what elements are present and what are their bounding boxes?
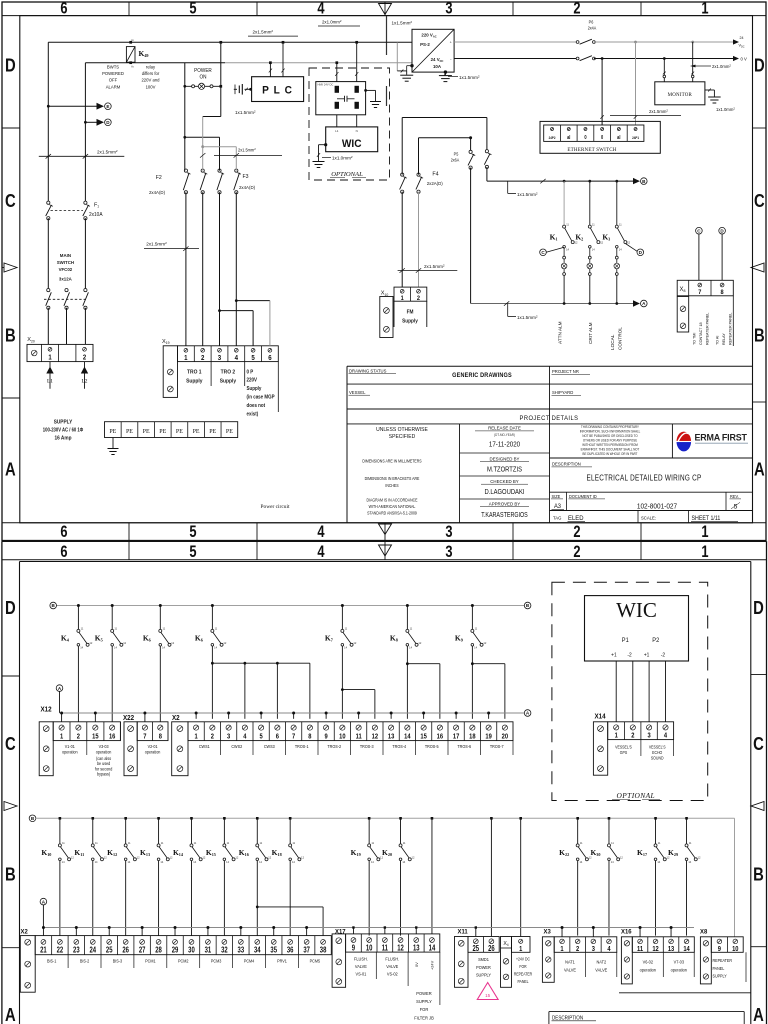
svg-text:F4: F4 bbox=[432, 172, 438, 178]
label 1x1.5mm2 at PS-2 ground bbox=[448, 75, 458, 77]
svg-text:CHECKED BY: CHECKED BY bbox=[490, 479, 519, 484]
relay contact K19 row2 bbox=[368, 817, 371, 820]
svg-text:WITH AMERICAN NATIONAL: WITH AMERICAN NATIONAL bbox=[369, 504, 416, 509]
svg-text:A: A bbox=[5, 459, 16, 480]
svg-text:1x1.5mm2: 1x1.5mm2 bbox=[517, 314, 538, 320]
sheet 1 outer border bbox=[2, 2, 766, 541]
svg-text:STANDARD ANSI/ISA-5.1-2009: STANDARD ANSI/ISA-5.1-2009 bbox=[367, 510, 417, 515]
wire F3.1 to X19.3 bbox=[219, 192, 221, 345]
svg-text:2x1.5mm2: 2x1.5mm2 bbox=[146, 241, 167, 247]
svg-text:TROS-7: TROS-7 bbox=[490, 744, 504, 749]
svg-text:2x4A(D): 2x4A(D) bbox=[149, 190, 165, 195]
svg-text:PCM1: PCM1 bbox=[145, 958, 156, 963]
svg-text:PE: PE bbox=[109, 429, 116, 435]
svg-text:D: D bbox=[753, 597, 764, 618]
svg-text:1: 1 bbox=[48, 354, 52, 362]
PS-2 input ground bbox=[396, 42, 398, 71]
svg-text:A: A bbox=[753, 1004, 764, 1024]
svg-text:X11: X11 bbox=[458, 928, 469, 935]
svg-text:DESCRIPTION: DESCRIPTION bbox=[552, 1015, 584, 1021]
svg-text:3: 3 bbox=[445, 524, 452, 542]
svg-text:D: D bbox=[5, 597, 16, 618]
svg-text:TO AI: TO AI bbox=[715, 336, 719, 345]
svg-text:2: 2 bbox=[573, 543, 580, 561]
svg-text:102-8001-027: 102-8001-027 bbox=[637, 503, 677, 510]
svg-text:18: 18 bbox=[469, 733, 476, 741]
straight wire X11 cell26 bbox=[490, 817, 493, 820]
svg-text:16 Amp: 16 Amp bbox=[55, 435, 72, 441]
wire right drop from top rail bbox=[219, 41, 222, 44]
svg-text:FLUSH.: FLUSH. bbox=[354, 956, 368, 961]
svg-text:FILTER JB: FILTER JB bbox=[414, 1015, 434, 1020]
node ethernet drop 1 bbox=[601, 57, 604, 60]
title block release column lines bbox=[460, 452, 550, 454]
svg-text:13: 13 bbox=[388, 733, 395, 741]
svg-text:VALVE: VALVE bbox=[355, 963, 367, 968]
wire +24V to arrow bbox=[594, 41, 734, 43]
wires main switch to X20 bbox=[47, 308, 49, 345]
dashed box OPTIONAL sheet1 bbox=[309, 68, 390, 180]
svg-text:29: 29 bbox=[172, 947, 179, 955]
terminal block X8 sheet1 bbox=[677, 280, 733, 296]
svg-text:220V: 220V bbox=[247, 377, 258, 384]
svg-text:L1: L1 bbox=[335, 129, 339, 133]
svg-text:5: 5 bbox=[251, 355, 255, 363]
svg-text:RELAY: RELAY bbox=[722, 333, 726, 345]
svg-text:6: 6 bbox=[268, 355, 272, 363]
title block frame bbox=[347, 365, 753, 367]
svg-text:4: 4 bbox=[317, 0, 325, 18]
relay contact K1 bbox=[563, 180, 566, 183]
svg-text:2: 2 bbox=[77, 733, 80, 741]
sheet 2 inner frame bbox=[20, 561, 751, 563]
relay contact K8 row1 bbox=[406, 604, 409, 607]
wire to monitor pin 1 bbox=[663, 59, 665, 82]
svg-text:GENERIC DRAWINGS: GENERIC DRAWINGS bbox=[452, 373, 512, 379]
sheet 1 inner frame bbox=[20, 16, 753, 523]
svg-text:FLUSH.: FLUSH. bbox=[385, 956, 399, 961]
svg-text:3: 3 bbox=[592, 945, 595, 953]
svg-text:C: C bbox=[5, 190, 16, 211]
relay contact K13 row2 bbox=[157, 817, 160, 820]
svg-text:A: A bbox=[5, 1004, 16, 1024]
relay contact K12 row2 bbox=[124, 817, 127, 820]
svg-text:PE: PE bbox=[143, 429, 150, 435]
svg-text:TROS-1: TROS-1 bbox=[295, 744, 309, 749]
svg-text:does not: does not bbox=[247, 402, 266, 409]
svg-text:P1: P1 bbox=[622, 638, 629, 644]
svg-text:PE: PE bbox=[126, 429, 133, 435]
svg-text:operation: operation bbox=[62, 749, 78, 754]
svg-text:ALARM: ALARM bbox=[106, 84, 121, 89]
staircase K9 to TROS-7 bbox=[471, 662, 474, 665]
svg-text:B: B bbox=[5, 864, 16, 885]
svg-text:2: 2 bbox=[211, 733, 214, 741]
svg-text:C: C bbox=[754, 190, 765, 211]
svg-text:1x1.0mm2: 1x1.0mm2 bbox=[716, 106, 735, 112]
svg-text:P6: P6 bbox=[589, 19, 594, 24]
svg-text:operation: operation bbox=[640, 967, 657, 972]
svg-text:11: 11 bbox=[382, 945, 388, 953]
relay contact K10 row2 bbox=[59, 817, 62, 820]
marker C at K1 bbox=[540, 249, 547, 256]
svg-text:MONITOR: MONITOR bbox=[668, 92, 693, 98]
svg-text:L2: L2 bbox=[82, 379, 88, 385]
staircase K8 to TROS-5 bbox=[406, 662, 409, 665]
svg-text:19: 19 bbox=[485, 733, 492, 741]
svg-text:PE: PE bbox=[159, 429, 166, 435]
relay contact K30 row2 bbox=[608, 817, 611, 820]
svg-text:NAT2: NAT2 bbox=[596, 959, 606, 964]
relay contact K15 row2 bbox=[223, 817, 226, 820]
svg-text:22: 22 bbox=[57, 947, 64, 955]
bracket 1x1.5mm2 on B bus bbox=[507, 181, 509, 193]
sheet 1 fold mark bottom bbox=[379, 524, 392, 535]
svg-text:exist): exist) bbox=[247, 411, 259, 418]
svg-text:7: 7 bbox=[143, 733, 146, 741]
svg-text:REPEATER: REPEATER bbox=[713, 958, 733, 964]
svg-text:NOT BE PUBLISHED OR DISCLO: NOT BE PUBLISHED OR DISCLOSED TO bbox=[582, 434, 638, 438]
svg-text:BIS-3: BIS-3 bbox=[113, 958, 123, 963]
svg-text:15: 15 bbox=[420, 733, 427, 741]
svg-text:L1: L1 bbox=[47, 379, 53, 385]
svg-text:C: C bbox=[753, 733, 764, 754]
svg-text:DOCUMENT ID: DOCUMENT ID bbox=[569, 494, 597, 499]
svg-text:HMI/ 24V DC: HMI/ 24V DC bbox=[318, 82, 334, 86]
label 1x1.0mm2 WIC ground bbox=[322, 157, 331, 159]
svg-text:A: A bbox=[754, 459, 765, 480]
svg-text:6: 6 bbox=[276, 733, 279, 741]
sheet 2 DESCRIPTION box bbox=[549, 1011, 744, 1013]
relay contact K18 row2 bbox=[289, 817, 292, 820]
wire node to F2.1 bbox=[184, 137, 186, 170]
svg-text:21: 21 bbox=[40, 947, 47, 955]
svg-text:ON: ON bbox=[199, 74, 206, 80]
svg-text:PCM4: PCM4 bbox=[244, 958, 255, 963]
svg-text:B: B bbox=[5, 325, 16, 346]
svg-text:VALVE: VALVE bbox=[595, 967, 607, 972]
PLC box bbox=[252, 77, 304, 102]
svg-text:OFF: OFF bbox=[109, 77, 118, 82]
svg-text:2: 2 bbox=[201, 355, 205, 363]
svg-text:CWS1: CWS1 bbox=[199, 744, 210, 749]
svg-text:VS-02: VS-02 bbox=[387, 971, 398, 976]
X19 group dividers bbox=[210, 362, 212, 386]
svg-text:8: 8 bbox=[159, 733, 162, 741]
marker B left row1 bbox=[50, 602, 57, 609]
straight wire X4 cell1 bbox=[519, 817, 522, 820]
svg-text:7: 7 bbox=[292, 733, 295, 741]
wire bend to F3.2 bbox=[203, 146, 237, 148]
main switch 3-pole bbox=[47, 289, 50, 292]
svg-text:E: E bbox=[106, 104, 109, 109]
svg-text:38: 38 bbox=[320, 947, 327, 955]
fuse F1 bbox=[47, 201, 50, 204]
sheet 1 fold mark left bbox=[4, 263, 17, 272]
svg-text:2: 2 bbox=[417, 294, 421, 302]
svg-text:SIZE: SIZE bbox=[552, 494, 561, 499]
svg-text:D.LAGOUDAKI: D.LAGOUDAKI bbox=[484, 489, 524, 497]
svg-text:PCM2: PCM2 bbox=[178, 958, 189, 963]
svg-text:3: 3 bbox=[227, 733, 230, 741]
svg-text:1: 1 bbox=[519, 945, 523, 953]
svg-text:24P1: 24P1 bbox=[632, 136, 639, 140]
WIC box sheet1 bbox=[326, 127, 378, 152]
sheet 1 centerfold dashes bbox=[386, 16, 388, 55]
svg-text:10: 10 bbox=[732, 945, 739, 953]
marker C to X8 bbox=[696, 227, 703, 234]
svg-text:2x10A: 2x10A bbox=[89, 212, 103, 218]
svg-text:2x4A(D): 2x4A(D) bbox=[239, 185, 255, 190]
svg-text:D: D bbox=[754, 55, 765, 76]
svg-text:X2: X2 bbox=[21, 928, 29, 935]
svg-text:5: 5 bbox=[189, 543, 196, 561]
svg-text:TO TMI: TO TMI bbox=[692, 333, 696, 345]
svg-text:14: 14 bbox=[683, 945, 690, 953]
relay contact K6 row1 bbox=[159, 604, 162, 607]
svg-text:4: 4 bbox=[317, 543, 325, 561]
svg-text:12: 12 bbox=[397, 945, 404, 953]
wire bus to marker A bbox=[470, 168, 472, 304]
wire +24V rail bbox=[454, 41, 577, 43]
wire 0V rail bbox=[454, 58, 577, 60]
svg-text:25: 25 bbox=[106, 947, 113, 955]
title block SIZE row bbox=[550, 491, 753, 493]
svg-text:X3: X3 bbox=[544, 928, 552, 935]
sheet 1 fold mark right bbox=[751, 263, 764, 272]
svg-text:D: D bbox=[5, 55, 16, 76]
svg-text:CWS2: CWS2 bbox=[231, 744, 242, 749]
svg-text:LOCAL: LOCAL bbox=[610, 334, 615, 350]
svg-text:2x2A(D): 2x2A(D) bbox=[427, 181, 443, 186]
svg-text:ERMAFIRST. THIS DOCUMENT SH: ERMAFIRST. THIS DOCUMENT SHALL NOT bbox=[581, 447, 640, 451]
svg-text:4: 4 bbox=[243, 733, 246, 741]
svg-text:P5: P5 bbox=[454, 151, 459, 156]
sheet 1 band ticks bottom bbox=[128, 523, 130, 541]
marker A row1 right bbox=[524, 710, 531, 717]
title block column dividers bbox=[459, 424, 461, 523]
svg-text:+: + bbox=[450, 40, 452, 44]
svg-text:(in case MGP: (in case MGP bbox=[247, 394, 276, 401]
svg-text:REPEATER PANEL: REPEATER PANEL bbox=[705, 313, 709, 345]
svg-text:DESIGNED BY: DESIGNED BY bbox=[490, 456, 521, 461]
svg-text:32: 32 bbox=[221, 947, 228, 955]
svg-text:0V: 0V bbox=[414, 962, 419, 967]
wire 220V L top rail bbox=[48, 41, 412, 43]
svg-text:INCHES: INCHES bbox=[385, 483, 399, 488]
power supply PS-2 bbox=[412, 29, 454, 72]
marker D bbox=[97, 119, 105, 126]
svg-text:operation: operation bbox=[671, 967, 688, 972]
svg-text:A3: A3 bbox=[554, 503, 562, 510]
svg-text:25: 25 bbox=[473, 945, 480, 953]
svg-text:M.TZORTZIS: M.TZORTZIS bbox=[487, 466, 522, 474]
svg-text:3: 3 bbox=[445, 0, 452, 18]
svg-text:7: 7 bbox=[698, 289, 702, 297]
logo ERMA FIRST bbox=[677, 432, 749, 452]
relay contact K20 row2 bbox=[399, 817, 402, 820]
bus A stubs row2 bbox=[42, 926, 45, 929]
svg-text:PROJECT DETAILS: PROJECT DETAILS bbox=[520, 414, 579, 421]
wire to monitor pin 2 bbox=[692, 42, 694, 82]
svg-text:PCM3: PCM3 bbox=[211, 958, 222, 963]
svg-text:1: 1 bbox=[401, 294, 405, 302]
relay contact K11 row2 bbox=[91, 817, 94, 820]
sheet 1 number band line bbox=[2, 15, 766, 17]
svg-text:1: 1 bbox=[195, 733, 198, 741]
relay contact K6 row1 bbox=[211, 604, 214, 607]
svg-text:SUPPLY: SUPPLY bbox=[54, 419, 73, 425]
relay contact K14 row2 bbox=[190, 817, 193, 820]
svg-text:VALVE: VALVE bbox=[564, 967, 576, 972]
svg-text:relay: relay bbox=[146, 64, 156, 69]
sheet 1 row letter dividers bbox=[2, 127, 20, 129]
svg-text:13: 13 bbox=[668, 945, 675, 953]
wire bend to F2.2 bbox=[203, 116, 221, 118]
relay contact K7 row1 bbox=[341, 604, 344, 607]
svg-text:1: 1 bbox=[615, 732, 618, 740]
capacitor in HMI filter bbox=[337, 98, 344, 100]
svg-text:6: 6 bbox=[60, 524, 67, 542]
staircase K6 to CWS feeds bbox=[211, 662, 214, 665]
svg-text:17: 17 bbox=[453, 733, 460, 741]
svg-text:SOUND: SOUND bbox=[651, 755, 664, 760]
marker B arrow bbox=[633, 178, 640, 184]
svg-text:24P2: 24P2 bbox=[549, 136, 556, 140]
svg-text:10: 10 bbox=[366, 945, 373, 953]
svg-text:1x1.5mm2: 1x1.5mm2 bbox=[517, 191, 538, 197]
svg-text:SCALE:: SCALE: bbox=[641, 515, 656, 520]
svg-text:Power circuit: Power circuit bbox=[261, 504, 290, 510]
svg-text:differs for: differs for bbox=[142, 71, 160, 76]
svg-text:PRV1: PRV1 bbox=[277, 958, 287, 963]
svg-text:11: 11 bbox=[637, 945, 643, 953]
svg-text:6: 6 bbox=[60, 0, 67, 18]
svg-text:35: 35 bbox=[270, 947, 277, 955]
svg-text:SMD1: SMD1 bbox=[478, 957, 489, 962]
ground for PE strip bbox=[112, 438, 114, 449]
terminal block X4 bbox=[501, 937, 512, 988]
svg-text:+1: +1 bbox=[644, 652, 650, 658]
relay contact K29 row2 bbox=[685, 817, 688, 820]
bus B row1 bbox=[56, 605, 524, 607]
svg-text:Supply: Supply bbox=[186, 378, 202, 384]
svg-text:POWER: POWER bbox=[416, 991, 431, 996]
svg-text:2x1.0mm2: 2x1.0mm2 bbox=[322, 19, 342, 25]
svg-text:WIC: WIC bbox=[342, 137, 362, 149]
svg-text:SHIPYARD: SHIPYARD bbox=[552, 390, 574, 395]
svg-text:ETHERNET SWITCH: ETHERNET SWITCH bbox=[567, 147, 616, 153]
svg-text:F3: F3 bbox=[242, 174, 248, 180]
marker A arrow bbox=[633, 300, 640, 306]
svg-text:B: B bbox=[754, 325, 765, 346]
title block logo cell divider bbox=[671, 424, 673, 458]
svg-text:SWITCH: SWITCH bbox=[57, 260, 75, 265]
bus A stubs row1 bbox=[60, 712, 63, 715]
svg-text:8: 8 bbox=[308, 733, 311, 741]
svg-text:PE: PE bbox=[209, 429, 216, 435]
sheet 2 fold mark left bbox=[4, 802, 17, 811]
monitor ground bbox=[705, 89, 715, 91]
svg-text:100-230V AC / 60 1Φ: 100-230V AC / 60 1Φ bbox=[43, 427, 83, 434]
svg-text:2: 2 bbox=[631, 732, 634, 740]
marker E bbox=[97, 103, 105, 110]
svg-text:10: 10 bbox=[339, 733, 346, 741]
svg-text:SUPPLY: SUPPLY bbox=[476, 972, 491, 977]
svg-text:2x4A: 2x4A bbox=[588, 25, 597, 30]
svg-text:36: 36 bbox=[287, 947, 294, 955]
svg-text:TROS-5: TROS-5 bbox=[425, 744, 439, 749]
svg-text:2: 2 bbox=[576, 945, 579, 953]
svg-text:31: 31 bbox=[205, 947, 212, 955]
svg-text:1x1.5mm2: 1x1.5mm2 bbox=[235, 109, 256, 115]
svg-text:2x1.5mm2: 2x1.5mm2 bbox=[238, 147, 256, 153]
svg-text:0 V: 0 V bbox=[741, 56, 747, 61]
svg-text:4: 4 bbox=[317, 524, 325, 542]
wire bus to marker B bbox=[486, 167, 488, 181]
svg-text:TAG: TAG bbox=[553, 515, 562, 520]
svg-text:CONTACT 18: CONTACT 18 bbox=[699, 322, 703, 345]
wire F4 to X10 bbox=[401, 192, 403, 287]
svg-text:DIAGRAM IS IN ACCORDANCE: DIAGRAM IS IN ACCORDANCE bbox=[366, 497, 417, 502]
svg-text:17-11-2020: 17-11-2020 bbox=[489, 441, 521, 448]
svg-text:OPTIONAL: OPTIONAL bbox=[617, 791, 656, 800]
svg-text:X16: X16 bbox=[621, 928, 632, 935]
label 2x1.0mm2 24V lines bbox=[695, 65, 711, 67]
svg-text:N: N bbox=[356, 129, 358, 133]
svg-text:PCM5: PCM5 bbox=[310, 958, 321, 963]
marker A row2 bbox=[40, 898, 47, 905]
svg-text:PE: PE bbox=[193, 429, 200, 435]
svg-text:1x1.0mm2: 1x1.0mm2 bbox=[332, 155, 353, 161]
svg-text:23: 23 bbox=[73, 947, 80, 955]
svg-text:1: 1 bbox=[701, 543, 708, 561]
svg-text:REV.: REV. bbox=[730, 494, 739, 499]
wire to marker D bbox=[85, 121, 97, 123]
HMI filter box bbox=[316, 82, 366, 115]
svg-text:ERMA FIRST: ERMA FIRST bbox=[694, 432, 747, 442]
relay contact K9 row1 bbox=[471, 604, 474, 607]
svg-text:11: 11 bbox=[356, 733, 362, 741]
bus B corner to X8 bbox=[734, 818, 736, 937]
svg-text:WITHOUT WRITTEN PERMISSION: WITHOUT WRITTEN PERMISSION FROM bbox=[582, 443, 638, 447]
svg-text:2x1.5mm2: 2x1.5mm2 bbox=[253, 29, 274, 35]
node ethernet drop 2 bbox=[634, 41, 637, 44]
svg-text:2x6A: 2x6A bbox=[451, 157, 460, 162]
bracket 1x1.5mm2 on A bus bbox=[507, 304, 509, 317]
svg-text:PANEL: PANEL bbox=[713, 965, 725, 971]
svg-text:FM: FM bbox=[407, 309, 414, 315]
svg-text:24: 24 bbox=[740, 36, 744, 40]
svg-text:10A: 10A bbox=[433, 64, 442, 69]
marker A row1 left bbox=[56, 685, 63, 692]
svg-text:14: 14 bbox=[429, 945, 436, 953]
wires X20 to supply L1 L2 bbox=[49, 362, 51, 389]
PLC EMC filter ground bbox=[245, 88, 252, 90]
svg-text:-2: -2 bbox=[661, 652, 665, 658]
fuse F2 bbox=[184, 169, 187, 172]
svg-text:2x1.0mm2: 2x1.0mm2 bbox=[712, 63, 731, 69]
svg-text:26: 26 bbox=[122, 947, 129, 955]
svg-text:CWS3: CWS3 bbox=[264, 744, 275, 749]
svg-text:POWER: POWER bbox=[476, 964, 491, 969]
svg-text:20: 20 bbox=[502, 733, 509, 741]
wires HMI to WIC bbox=[336, 115, 338, 127]
svg-text:27: 27 bbox=[139, 947, 146, 955]
svg-text:operation: operation bbox=[145, 749, 161, 754]
svg-text:INFORMATION. SUCH INFORMATION: INFORMATION. SUCH INFORMATION SHALL bbox=[580, 429, 641, 433]
sheet 2 number band bbox=[2, 559, 767, 561]
